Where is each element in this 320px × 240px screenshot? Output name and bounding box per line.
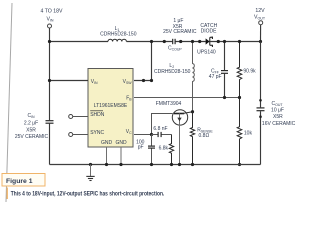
svg-text:UPS140: UPS140	[197, 49, 216, 55]
wire ground rail	[50, 164, 261, 166]
node junction VC	[150, 133, 153, 136]
svg-text:10k: 10k	[244, 131, 253, 137]
svg-text:0.8Ω: 0.8Ω	[199, 133, 210, 139]
caption text	[11, 190, 165, 197]
node SYNC terminal	[69, 133, 88, 137]
resistor R2 10k	[237, 98, 252, 167]
capacitor 6.8nF	[152, 126, 172, 137]
capacitor 100pF	[136, 135, 155, 165]
node junction L2 top	[191, 40, 194, 43]
svg-text:6.8 nF: 6.8 nF	[153, 126, 167, 132]
node junction VIN pin	[48, 79, 51, 82]
ground symbol	[86, 165, 94, 181]
capacitor CIN	[15, 113, 54, 140]
svg-text:25V CERAMIC: 25V CERAMIC	[163, 29, 197, 35]
wire top rail	[50, 41, 261, 43]
capacitor CFF 47pF	[209, 40, 228, 99]
svg-text:X5R: X5R	[26, 128, 36, 134]
capacitor COUT	[257, 99, 296, 127]
node junction CCOUP right	[179, 40, 182, 43]
node VOUT terminal	[254, 8, 266, 25]
svg-text:16V CERAMIC: 16V CERAMIC	[262, 121, 296, 127]
op-amp U1 LT1961EMS8E box	[88, 69, 133, 148]
svg-text:X5R: X5R	[273, 114, 283, 120]
page margin line	[6, 3, 12, 202]
svg-text:This 4 to 18V-input, 12V-outpu: This 4 to 18V-input, 12V-output SEPIC ha…	[11, 190, 165, 197]
node junction diode anode	[198, 40, 201, 43]
svg-text:LT1961EMS8E: LT1961EMS8E	[94, 103, 128, 109]
resistor 6.8k	[159, 135, 174, 165]
wire VIN pin	[50, 80, 89, 82]
svg-text:pF: pF	[138, 144, 144, 150]
svg-text:47 pF: 47 pF	[209, 74, 222, 80]
svg-text:CDRH5D28-150: CDRH5D28-150	[100, 32, 137, 38]
svg-text:GND: GND	[115, 140, 127, 146]
svg-text:FMMT3904: FMMT3904	[156, 101, 182, 107]
node junction diode cathode	[217, 40, 220, 43]
wire VSW riser	[134, 42, 152, 81]
resistor RSENSE	[190, 112, 213, 165]
capacitor CCOUP	[163, 18, 197, 51]
figure label box	[2, 174, 45, 187]
svg-text:2.2 μF: 2.2 μF	[24, 121, 38, 127]
svg-text:GND: GND	[101, 140, 113, 146]
svg-text:10 μF: 10 μF	[271, 108, 284, 114]
node junction collector	[191, 110, 194, 113]
transistor Q1 FMMT3904	[156, 101, 193, 165]
wire GND pin stubs	[107, 147, 122, 165]
inductor L1	[100, 26, 137, 42]
node junction VIN-L1	[48, 40, 51, 43]
svg-text:6.8k: 6.8k	[159, 146, 169, 152]
svg-text:12V: 12V	[255, 8, 265, 14]
svg-text:4 TO 18V: 4 TO 18V	[40, 8, 63, 14]
node SHDN terminal	[69, 115, 88, 119]
wire VC net	[134, 114, 173, 135]
resistor R1 90.9k	[237, 40, 256, 99]
wire VOUT drop	[260, 25, 262, 42]
wire VIN vertical	[49, 28, 51, 165]
svg-text:Figure 1: Figure 1	[6, 178, 33, 185]
caption tick	[6, 188, 8, 200]
svg-text:SHDN: SHDN	[90, 112, 105, 118]
svg-text:CDRH5D28-150: CDRH5D28-150	[154, 69, 191, 75]
svg-text:DIODE: DIODE	[201, 29, 218, 35]
node junctions on ground rail	[89, 163, 194, 166]
node VIN terminal	[40, 8, 63, 28]
svg-text:90.9k: 90.9k	[243, 69, 256, 75]
inductor L2	[154, 42, 194, 112]
svg-text:25V CERAMIC: 25V CERAMIC	[15, 134, 49, 140]
svg-text:SYNC: SYNC	[90, 130, 104, 136]
node VSW junctions	[142, 40, 166, 82]
wire FB	[134, 97, 240, 99]
wire VOUT rail	[260, 42, 262, 165]
diode D1 UPS140	[197, 23, 218, 56]
node junction VOUT	[259, 40, 262, 43]
